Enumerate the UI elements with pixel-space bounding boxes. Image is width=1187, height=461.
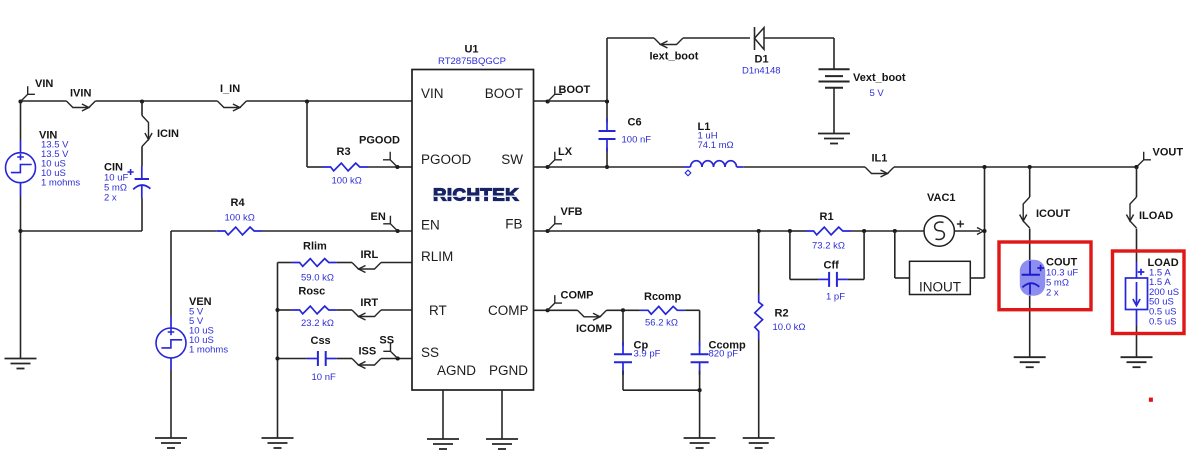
diode D1 D1n4148 — [742, 27, 834, 77]
capacitor Cp — [614, 310, 661, 390]
svg-text:VOUT: VOUT — [1153, 147, 1184, 159]
svg-text:EN: EN — [371, 211, 386, 223]
ground (bias rail) — [262, 437, 294, 439]
wire : VIN source branch — [20, 101, 22, 141]
current probe ICIN — [142, 116, 179, 147]
current probe IRL — [352, 249, 381, 272]
svg-text:74.1 mΩ: 74.1 mΩ — [698, 140, 734, 151]
capacitor COUT (selected, highlighted) — [1020, 256, 1079, 298]
wire : comp network bottom join to ground — [623, 389, 700, 391]
node SS (probe) — [379, 334, 399, 360]
wire : AGND pin to ground — [442, 390, 444, 439]
current probe IRT — [352, 297, 381, 320]
svg-text:COUT: COUT — [1046, 256, 1077, 268]
svg-text:ILOAD: ILOAD — [1139, 210, 1173, 222]
resistor Rosc — [291, 286, 336, 330]
svg-text:3.9 pF: 3.9 pF — [634, 349, 661, 360]
svg-text:PGOOD: PGOOD — [421, 152, 472, 167]
svg-text:COMP: COMP — [561, 289, 594, 301]
svg-text:Rlim: Rlim — [303, 241, 327, 253]
svg-text:820 pF: 820 pF — [709, 349, 739, 360]
svg-text:1 pF: 1 pF — [826, 292, 845, 303]
svg-text:AGND: AGND — [437, 363, 476, 378]
svg-text:ISS: ISS — [359, 346, 377, 358]
svg-text:LX: LX — [558, 146, 573, 158]
block INOUT — [895, 231, 985, 295]
svg-text:PGND: PGND — [489, 363, 528, 378]
svg-text:73.2 kΩ: 73.2 kΩ — [812, 241, 845, 252]
wire : VIN source to bottom rail and ground — [20, 196, 22, 359]
svg-text:VIN: VIN — [35, 78, 53, 90]
red highlight box LOAD — [1113, 251, 1185, 334]
wire : bottom rail VIN- to CIN — [21, 230, 143, 232]
svg-text:5 V: 5 V — [870, 88, 885, 99]
svg-text:Css: Css — [311, 335, 331, 347]
node COMP (probe) — [546, 289, 594, 312]
svg-text:2 x: 2 x — [1046, 288, 1059, 299]
svg-text:SS: SS — [421, 345, 439, 360]
svg-text:R2: R2 — [775, 308, 789, 320]
svg-text:IL1: IL1 — [872, 152, 888, 164]
svg-text:R4: R4 — [231, 197, 246, 209]
svg-text:U1: U1 — [464, 44, 478, 56]
svg-text:100 nF: 100 nF — [622, 135, 652, 146]
resistor R3 — [322, 146, 367, 187]
current probe ILOAD — [1126, 197, 1173, 228]
source VEN (step voltage source) — [156, 296, 228, 370]
ground (R2) — [743, 437, 775, 439]
svg-text:R1: R1 — [820, 211, 834, 223]
current probe Iext_boot — [650, 38, 699, 63]
capacitor Css — [307, 335, 337, 383]
svg-text:BOOT: BOOT — [559, 84, 591, 96]
current probe ISS — [352, 346, 381, 369]
node LOAD branch — [1134, 165, 1138, 169]
wire : PGOOD branch — [306, 101, 308, 167]
wire : top VIN rail — [21, 100, 413, 102]
svg-text:EN: EN — [421, 218, 440, 233]
node COUT branch — [1028, 165, 1032, 169]
ground (COUT) — [1014, 356, 1046, 358]
node BOOT (probe) — [546, 84, 591, 104]
ground (VEN) — [155, 437, 187, 439]
wire : COMP row — [534, 309, 578, 311]
svg-text:56.2 kΩ: 56.2 kΩ — [645, 318, 678, 329]
svg-text:IVIN: IVIN — [70, 88, 91, 100]
node LX (probe) — [546, 146, 573, 169]
svg-text:Cff: Cff — [824, 260, 840, 272]
svg-text:10 nF: 10 nF — [312, 372, 336, 383]
battery Vext_boot — [819, 38, 906, 134]
wire : RLIM row — [278, 262, 292, 264]
resistor R4 — [217, 197, 262, 235]
svg-text:SS: SS — [379, 334, 394, 346]
svg-text:RICHTEK: RICHTEK — [433, 185, 519, 205]
svg-text:I_IN: I_IN — [220, 83, 240, 95]
current probe ICOUT — [1020, 197, 1071, 228]
svg-text:INOUT: INOUT — [919, 280, 961, 295]
inductor L1 — [684, 121, 744, 176]
node PGOOD (probe) — [359, 135, 400, 170]
red marker dot — [1149, 398, 1153, 402]
svg-text:IRL: IRL — [361, 249, 379, 261]
svg-text:D1n4148: D1n4148 — [742, 66, 781, 77]
wire : COUT to ground — [1029, 296, 1031, 358]
wire : VEN branch vertical — [170, 231, 172, 317]
node EN (probe) — [371, 211, 400, 233]
node VFB (probe) — [546, 206, 583, 233]
wire : EN row (VEN to EN pin) — [171, 230, 217, 232]
current probe ICOMP — [576, 310, 612, 335]
source VIN (step voltage source) — [6, 129, 81, 196]
svg-text:BOOT: BOOT — [485, 86, 523, 101]
svg-text:ICOMP: ICOMP — [576, 323, 612, 335]
current probe IL1 — [865, 152, 894, 177]
wire : boot loop vertical + top — [606, 38, 608, 123]
ground (Ccomp) — [684, 437, 716, 439]
svg-text:R3: R3 — [337, 146, 351, 158]
op-amp U1 IC box RT2875BQGCP — [412, 44, 534, 391]
svg-text:ICIN: ICIN — [157, 128, 179, 140]
wire : VAC1 to VOUT rail vertical — [984, 167, 986, 278]
wire : FB row — [534, 230, 759, 232]
svg-text:SW: SW — [501, 152, 523, 167]
svg-text:0.5 uS: 0.5 uS — [1149, 316, 1176, 327]
wire : left bias rail — [277, 263, 279, 439]
svg-text:Iext_boot: Iext_boot — [650, 51, 699, 63]
svg-text:VIN: VIN — [421, 86, 444, 101]
node VIN (probe + junction) — [18, 78, 53, 104]
ground (AGND) — [427, 438, 459, 440]
svg-text:59.0 kΩ: 59.0 kΩ — [301, 272, 334, 283]
resistor Rcomp — [621, 291, 685, 329]
wire : VEN to ground — [170, 370, 172, 438]
wire : LOAD branch — [1136, 167, 1138, 197]
svg-text:100 kΩ: 100 kΩ — [225, 213, 255, 224]
wire : COUT branch — [1029, 167, 1031, 197]
svg-text:C6: C6 — [628, 117, 642, 129]
node VOUT (probe) — [1134, 147, 1183, 170]
svg-text:10.0 kΩ: 10.0 kΩ — [773, 322, 806, 333]
capacitor Cff (parallel with R1) — [790, 231, 864, 303]
svg-text:VAC1: VAC1 — [927, 192, 956, 204]
current source LOAD — [1126, 257, 1180, 328]
wire : BOOT row — [534, 100, 608, 102]
RICHTEK logo — [433, 185, 519, 205]
wire : SW / LX output rail — [534, 166, 684, 168]
wire : LOAD to ground — [1136, 326, 1138, 358]
svg-text:ICOUT: ICOUT — [1036, 208, 1071, 220]
svg-text:PGOOD: PGOOD — [359, 135, 400, 147]
svg-text:RT: RT — [429, 303, 447, 318]
capacitor C6 — [599, 117, 652, 152]
svg-text:23.2 kΩ: 23.2 kΩ — [301, 318, 334, 329]
node PGOOD branch on VIN rail — [305, 99, 309, 103]
ac sweep source VAC1 — [893, 192, 984, 246]
svg-text:2 x: 2 x — [104, 193, 117, 204]
current probe IVIN — [66, 88, 95, 112]
svg-text:D1: D1 — [755, 54, 769, 66]
red highlight box COUT — [999, 242, 1091, 310]
svg-text:FB: FB — [505, 217, 522, 232]
svg-text:IRT: IRT — [360, 297, 378, 309]
svg-text:RT2875BQGCP: RT2875BQGCP — [438, 56, 506, 67]
wire : SS row — [278, 358, 307, 360]
ground (PGND) — [486, 438, 518, 440]
wire : PGND pin to ground — [501, 390, 503, 439]
svg-text:VFB: VFB — [561, 206, 583, 218]
svg-text:100 kΩ: 100 kΩ — [332, 176, 362, 187]
resistor R2 to ground — [755, 229, 806, 438]
svg-text:1 mohms: 1 mohms — [189, 345, 228, 356]
wire : CIN branch vertical — [141, 101, 143, 116]
wire : RT row — [278, 309, 292, 311]
resistor R1 — [788, 211, 866, 252]
svg-text:COMP: COMP — [488, 303, 529, 318]
current probe I_IN — [217, 83, 246, 111]
svg-text:Rosc: Rosc — [298, 286, 325, 298]
ground (LOAD) — [1121, 356, 1153, 358]
svg-text:Rcomp: Rcomp — [644, 291, 682, 303]
node CIN branch — [140, 99, 144, 103]
capacitor CIN (polarized) — [104, 162, 150, 204]
capacitor Ccomp — [691, 310, 746, 390]
svg-text:1 mohms: 1 mohms — [41, 178, 80, 189]
svg-text:RLIM: RLIM — [421, 249, 453, 264]
ground (VIN source) — [5, 358, 37, 360]
resistor Rlim — [291, 241, 336, 284]
ground (Vext_boot) — [818, 133, 850, 135]
svg-text:Vext_boot: Vext_boot — [853, 72, 906, 84]
